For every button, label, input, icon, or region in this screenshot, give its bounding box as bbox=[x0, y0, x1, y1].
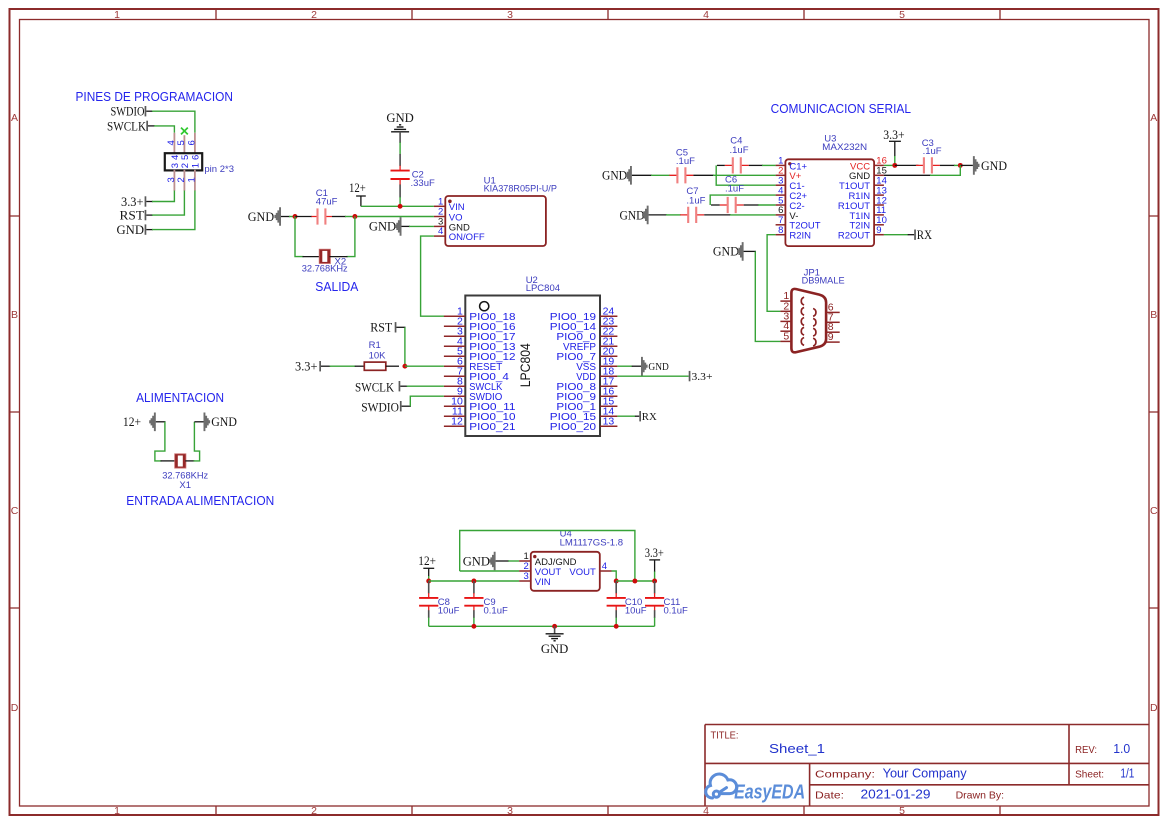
svg-text:D: D bbox=[11, 702, 19, 714]
svg-text:GND: GND bbox=[620, 207, 645, 222]
U2 pin 1 PIO0_18 bbox=[444, 305, 516, 323]
U2 pin 19 VSS bbox=[576, 355, 617, 373]
svg-text:GND: GND bbox=[463, 553, 490, 568]
U1 pin1 dot bbox=[448, 200, 452, 204]
junction feedback/rail bbox=[632, 579, 637, 584]
junction C9 top bbox=[471, 579, 476, 584]
wire X1 right to GND bbox=[185, 422, 204, 461]
junction 12+/C8/rail bbox=[426, 579, 431, 584]
svg-text:1: 1 bbox=[187, 177, 198, 182]
capacitor C4 bbox=[725, 136, 749, 174]
JP1 pin 8 bbox=[813, 321, 840, 336]
node RX (U3 R2OUT) bbox=[884, 227, 933, 242]
JP1 pin 1 bbox=[780, 290, 804, 305]
wire 3.3+ to pin3 column bbox=[146, 191, 174, 202]
capacitor C7 bbox=[680, 186, 705, 223]
wire C5 to U3 V+ bbox=[693, 174, 714, 176]
svg-text:9: 9 bbox=[828, 331, 834, 343]
border column ticks bottom bbox=[216, 806, 1000, 815]
svg-text:DB9MALE: DB9MALE bbox=[802, 276, 845, 287]
capacitor C11 bbox=[645, 581, 688, 626]
U3 pin 7 T2OUT bbox=[776, 215, 821, 232]
svg-text:GND: GND bbox=[648, 361, 668, 373]
wire U3 GND pin15 to junction bbox=[884, 165, 960, 175]
U3 pin 9 R2OUT bbox=[838, 225, 884, 242]
flag GND (power input) bbox=[204, 413, 237, 432]
node SWDIO (U2) bbox=[361, 400, 401, 415]
node SWCLK (U2) bbox=[355, 379, 400, 394]
svg-text:13: 13 bbox=[603, 415, 615, 427]
svg-text:.1uF: .1uF bbox=[730, 145, 749, 156]
U2 pin 24 PIO0_19 bbox=[550, 305, 618, 323]
svg-text:1: 1 bbox=[114, 9, 120, 21]
U4 pin1 dot bbox=[533, 555, 536, 558]
wire SWCLK to U2 pin8 bbox=[400, 385, 444, 387]
svg-text:.1uF: .1uF bbox=[923, 146, 942, 157]
svg-text:GND: GND bbox=[713, 244, 739, 259]
U1 pin 3 GND bbox=[434, 217, 470, 234]
flag GND (JP1 pin5) bbox=[713, 242, 744, 261]
U3 pin 2 V+ bbox=[776, 166, 802, 183]
junction C3/GND pin bbox=[958, 163, 963, 168]
wire R1 to RESET junction bbox=[386, 365, 399, 367]
svg-text:RX: RX bbox=[642, 411, 657, 423]
U2 pin 11 PIO0_10 bbox=[444, 405, 516, 423]
connector P1 pin stubs bottom (pins 3,2,1) bbox=[174, 170, 195, 191]
U3 pin 11 T1IN bbox=[850, 205, 887, 222]
wire C3 to GND flag bbox=[940, 164, 955, 166]
wire GND to pin1 column bbox=[146, 191, 195, 230]
svg-text:5: 5 bbox=[176, 140, 187, 145]
svg-text:12+: 12+ bbox=[123, 414, 141, 429]
U3 pin 12 R1OUT bbox=[838, 195, 887, 212]
svg-text:4: 4 bbox=[703, 9, 709, 21]
svg-text:0.1uF: 0.1uF bbox=[484, 605, 508, 616]
U2 pin 20 PIO0_7 bbox=[556, 345, 617, 363]
svg-text:ON/OFF: ON/OFF bbox=[449, 232, 485, 243]
svg-text:Sheet:: Sheet: bbox=[1075, 768, 1104, 780]
wire GND flag to C1 left node bbox=[281, 216, 290, 218]
svg-text:3.3+: 3.3+ bbox=[295, 359, 318, 374]
svg-text:.1uF: .1uF bbox=[725, 183, 744, 194]
svg-text:GND: GND bbox=[117, 222, 145, 237]
node RST (U2) bbox=[370, 320, 396, 335]
U3 pin 14 T1OUT bbox=[839, 176, 887, 193]
svg-text:1: 1 bbox=[114, 805, 120, 817]
border row ticks left bbox=[10, 216, 20, 608]
svg-text:R2OUT: R2OUT bbox=[838, 231, 870, 242]
svg-text:COMUNICACION SERIAL: COMUNICACION SERIAL bbox=[771, 101, 911, 116]
wire C1 left bbox=[295, 216, 312, 218]
wire VIN rail bbox=[429, 580, 519, 582]
svg-text:GND: GND bbox=[248, 209, 274, 224]
U2 pin1 indicator circle bbox=[480, 302, 489, 311]
svg-text:RST: RST bbox=[120, 207, 145, 222]
crystal X1 bbox=[162, 454, 208, 491]
junction pin4/C10/rail bbox=[614, 579, 619, 584]
svg-text:PIO0_20: PIO0_20 bbox=[550, 421, 596, 433]
wire U3 R2IN down to JP1 pin2 bbox=[767, 235, 780, 312]
node 12+ (U4 input) bbox=[418, 553, 436, 568]
ground GND (top of C2) bbox=[386, 110, 414, 132]
JP1 pin 4 bbox=[780, 320, 804, 335]
U2 pin 10 PIO0_11 bbox=[444, 395, 516, 413]
svg-text:R2IN: R2IN bbox=[789, 231, 811, 242]
svg-text:1/1: 1/1 bbox=[1120, 766, 1134, 780]
U3 pin 8 R2IN bbox=[776, 225, 812, 242]
svg-text:ALIMENTACION: ALIMENTACION bbox=[136, 390, 224, 405]
JP1 pin 3 bbox=[780, 310, 804, 325]
svg-text:.1uF: .1uF bbox=[676, 156, 695, 167]
junction RST/R1/RESET bbox=[402, 364, 407, 369]
U2 pin 15 PIO0_1 bbox=[556, 395, 617, 413]
wire U1 VO to C1 right node bbox=[355, 216, 434, 218]
svg-text:4: 4 bbox=[703, 805, 709, 817]
svg-text:.1uF: .1uF bbox=[686, 196, 705, 207]
U2 pin 12 PIO0_21 bbox=[444, 415, 516, 433]
svg-text:12+: 12+ bbox=[349, 180, 366, 195]
wire C1 left node down to X2 bbox=[295, 217, 304, 257]
wire SWDIO up to U2 pin9 bbox=[402, 396, 444, 406]
JP1 pin 7 bbox=[813, 311, 840, 326]
svg-text:SWDIO: SWDIO bbox=[361, 400, 399, 415]
node SWDIO (programming header) bbox=[111, 104, 147, 119]
wire SWCLK to pin4 column bbox=[148, 126, 174, 133]
svg-text:10K: 10K bbox=[369, 350, 387, 361]
border row ticks right bbox=[1149, 216, 1159, 608]
capacitor C3 bbox=[916, 138, 942, 174]
junction C9 bottom bbox=[471, 624, 476, 629]
U2 pin 8 SWCLK bbox=[444, 375, 502, 393]
svg-text:12+: 12+ bbox=[418, 553, 436, 568]
svg-text:1: 1 bbox=[191, 163, 202, 168]
svg-text:REV:: REV: bbox=[1075, 744, 1097, 756]
JP1 pin 5 bbox=[780, 330, 804, 345]
U3 pin 15 GND bbox=[849, 166, 887, 183]
wire GND down to JP1 pin5 bbox=[744, 251, 781, 341]
connector P1 pin stubs top (pins 4,5,6) bbox=[174, 133, 195, 153]
U2 pin 18 VDD bbox=[576, 365, 617, 383]
svg-text:3: 3 bbox=[507, 9, 513, 21]
svg-text:2: 2 bbox=[180, 163, 191, 168]
svg-text:5: 5 bbox=[899, 9, 905, 21]
U3 pin 10 T2IN bbox=[850, 215, 887, 232]
node RX (U2 PIO0_15) bbox=[617, 411, 656, 423]
svg-text:RST: RST bbox=[370, 320, 392, 335]
flag GND (U4 ADJ) bbox=[463, 552, 496, 571]
wire 12+ to U1 VIN bbox=[360, 196, 362, 206]
svg-text:Drawn By:: Drawn By: bbox=[956, 790, 1005, 802]
flag GND (right of C3) bbox=[973, 156, 1007, 175]
svg-text:PINES DE PROGRAMACION: PINES DE PROGRAMACION bbox=[76, 89, 233, 104]
connector JP1 DB9MALE body bbox=[791, 289, 826, 352]
svg-text:GND: GND bbox=[386, 110, 414, 125]
U2 pin 9 SWDIO bbox=[444, 385, 502, 403]
svg-text:SWCLK: SWCLK bbox=[107, 118, 147, 133]
svg-text:VOUT: VOUT bbox=[569, 567, 596, 578]
svg-text:2: 2 bbox=[311, 805, 317, 817]
svg-text:.33uF: .33uF bbox=[411, 178, 435, 189]
wire GND to C7 bbox=[649, 214, 667, 216]
U3 pin 6 V- bbox=[776, 205, 799, 222]
svg-text:4: 4 bbox=[438, 226, 443, 237]
svg-text:3.3+: 3.3+ bbox=[645, 545, 664, 560]
node SWCLK (programming header) bbox=[107, 118, 148, 133]
capacitor C10 bbox=[607, 581, 647, 626]
capacitor C8 bbox=[419, 581, 460, 626]
JP1 pin 2 bbox=[780, 300, 804, 315]
U2 pin 2 PIO0_16 bbox=[444, 315, 516, 333]
wire C4 left down to U3 C1- bbox=[716, 165, 775, 185]
wire bottom GND rail bbox=[429, 625, 655, 627]
wire junction to GND flag bbox=[960, 164, 973, 166]
wire 3.3+ down to VCC net bbox=[894, 141, 896, 165]
U2 pin 16 PIO0_9 bbox=[556, 385, 617, 403]
wire GND flag to U1 GND bbox=[402, 225, 411, 227]
svg-text:B: B bbox=[11, 309, 18, 321]
capacitor C6 bbox=[720, 174, 745, 213]
wire RST to pin2 column bbox=[146, 191, 184, 216]
svg-text:Company:: Company: bbox=[815, 768, 875, 780]
svg-text:ENTRADA ALIMENTACION: ENTRADA ALIMENTACION bbox=[126, 493, 274, 508]
wire GND flag to U4 pin1 bbox=[496, 560, 519, 562]
svg-text:5: 5 bbox=[180, 155, 191, 160]
connector P1 body bbox=[165, 153, 202, 170]
U2 pin 6 RESET bbox=[444, 355, 503, 373]
U4 pin 2 VOUT bbox=[519, 561, 561, 578]
IC U3 MAX232N body bbox=[785, 159, 874, 246]
svg-text:4: 4 bbox=[602, 561, 607, 572]
svg-text:6: 6 bbox=[187, 140, 198, 145]
U3 pin 4 C2+ bbox=[776, 185, 808, 202]
U2 pin 13 PIO0_20 bbox=[550, 415, 618, 433]
svg-text:A: A bbox=[1150, 112, 1157, 124]
IC U2 LPC804 body bbox=[465, 296, 600, 437]
wire junction to U2 RESET bbox=[405, 365, 444, 367]
wire SWDIO to pin6 column bbox=[146, 111, 195, 133]
U3 pin 13 R1IN bbox=[848, 185, 886, 202]
wire C1 right bbox=[332, 216, 346, 218]
wire 12+ down to VIN rail bbox=[428, 568, 430, 581]
U2 pin 17 PIO0_8 bbox=[556, 375, 617, 393]
svg-text:12: 12 bbox=[451, 415, 463, 427]
svg-text:LM1117GS-1.8: LM1117GS-1.8 bbox=[560, 538, 624, 549]
no-connect X on pin5 bbox=[181, 128, 188, 135]
svg-text:C: C bbox=[1150, 505, 1158, 517]
capacitor C9 bbox=[464, 581, 508, 626]
node 3.3+ (U4 output) bbox=[645, 545, 664, 560]
svg-text:GND: GND bbox=[602, 168, 627, 183]
svg-text:3: 3 bbox=[524, 571, 529, 582]
node 12+ (U1 input) bbox=[349, 180, 366, 196]
U1 pin 4 ON/OFF bbox=[434, 226, 485, 243]
svg-text:X1: X1 bbox=[179, 480, 191, 491]
U2 pin 22 PIO0_0 bbox=[556, 325, 617, 343]
U4 pin 1 ADJ/GND bbox=[519, 551, 577, 568]
wire GND to C5 bbox=[632, 174, 652, 176]
svg-text:GND: GND bbox=[981, 158, 1007, 173]
junction 3.3+/C11/rail bbox=[652, 579, 657, 584]
U3 pin 16 VCC bbox=[850, 156, 887, 173]
flag GND (U1 pin3) bbox=[369, 217, 402, 236]
crystal X2 bbox=[302, 249, 348, 274]
svg-text:6: 6 bbox=[191, 155, 202, 160]
wire C4 right to U3 C1+ bbox=[749, 164, 763, 166]
U1 pin 1 VIN bbox=[434, 196, 465, 213]
svg-text:Date:: Date: bbox=[815, 790, 844, 802]
svg-text:SWCLK: SWCLK bbox=[355, 379, 395, 394]
U3 pin 1 C1+ bbox=[776, 156, 808, 173]
svg-text:32.768KHz: 32.768KHz bbox=[302, 264, 348, 275]
svg-text:RX: RX bbox=[917, 227, 933, 242]
junction C10 bottom bbox=[614, 624, 619, 629]
svg-text:2021-01-29: 2021-01-29 bbox=[861, 788, 931, 802]
svg-text:Sheet_1: Sheet_1 bbox=[769, 742, 825, 756]
svg-text:47uF: 47uF bbox=[316, 197, 338, 208]
JP1 pin 9 bbox=[813, 331, 840, 346]
svg-text:9: 9 bbox=[876, 225, 881, 236]
svg-text:MAX232N: MAX232N bbox=[822, 142, 867, 153]
junction C2/VIN bbox=[398, 204, 403, 209]
svg-text:3.3+: 3.3+ bbox=[883, 127, 904, 142]
U1 pin 2 VO bbox=[434, 207, 463, 224]
flag GND (left of C1) bbox=[248, 207, 281, 226]
U2 pin 21 VREFP bbox=[563, 335, 617, 353]
node GND (programming header) bbox=[117, 222, 147, 237]
U2 pin 14 PIO0_15 bbox=[550, 405, 618, 423]
svg-text:SALIDA: SALIDA bbox=[315, 279, 359, 294]
svg-text:VIN: VIN bbox=[535, 577, 551, 588]
wire junction to C3 bbox=[895, 164, 919, 166]
wire U1 ON/OFF down to U2 pin1 bbox=[421, 236, 445, 316]
JP1 pin 6 bbox=[813, 301, 840, 316]
regulator U4 body bbox=[531, 552, 600, 591]
EasyEDA logo cloud bbox=[706, 774, 737, 798]
capacitor C2 bbox=[391, 170, 435, 190]
svg-text:KIA378R05PI-U/P: KIA378R05PI-U/P bbox=[484, 184, 557, 195]
junction GND bottom bbox=[552, 624, 557, 629]
wire RST down to RESET net bbox=[396, 327, 405, 366]
resistor R1 10K bbox=[364, 340, 386, 370]
node 3.3+ (programming header) bbox=[121, 194, 146, 209]
wire feedback to U4 pin2 bbox=[460, 570, 519, 572]
svg-text:D: D bbox=[1150, 702, 1158, 714]
flag GND (C7) bbox=[620, 206, 649, 225]
wire 3.3+ down to rail bbox=[654, 560, 656, 581]
wire 3.3+ to R1 bbox=[321, 365, 364, 367]
svg-text:Your Company: Your Company bbox=[883, 766, 968, 780]
svg-text:8: 8 bbox=[778, 225, 783, 236]
title block bbox=[705, 725, 1149, 807]
capacitor C1 bbox=[311, 188, 337, 224]
U3 pin 3 C1- bbox=[776, 176, 805, 193]
U3 pin1 dot bbox=[788, 162, 791, 165]
wire C1 right node down to X2 bbox=[347, 217, 355, 257]
wire C2 to VIN net bbox=[399, 179, 401, 185]
node 3.3+ (R1 input) bbox=[295, 359, 321, 374]
svg-text:2: 2 bbox=[176, 177, 187, 182]
border column ticks top bbox=[216, 9, 1000, 20]
U2 pin 23 PIO0_14 bbox=[550, 315, 618, 333]
node 3.3+ (U2 VDD) bbox=[617, 371, 712, 383]
wire C6 right to U3 C2- bbox=[744, 204, 776, 206]
wire C7 to U3 V- bbox=[704, 214, 731, 216]
U4 pin 4 VOUT bbox=[569, 561, 611, 578]
U3 pin 5 C2- bbox=[776, 195, 805, 212]
svg-text:10uF: 10uF bbox=[625, 605, 647, 616]
U2 pin 5 PIO0_12 bbox=[444, 345, 516, 363]
svg-text:C: C bbox=[11, 505, 19, 517]
svg-text:B: B bbox=[1150, 309, 1157, 321]
U2 pin 7 PIO0_4 bbox=[444, 365, 509, 383]
ground GND (U4 bottom) bbox=[541, 626, 569, 656]
junction C1 right bbox=[352, 214, 357, 219]
svg-text:2: 2 bbox=[311, 9, 317, 21]
svg-text:LPC804: LPC804 bbox=[526, 283, 560, 294]
wire X2 left lead bbox=[303, 256, 321, 258]
flag GND (C5) bbox=[602, 166, 632, 185]
svg-text:pin 2*3: pin 2*3 bbox=[204, 164, 234, 175]
svg-text:SWDIO: SWDIO bbox=[111, 104, 145, 119]
svg-text:1.0: 1.0 bbox=[1113, 742, 1130, 756]
node 12+ (power input) bbox=[123, 413, 156, 432]
svg-text:3.3+: 3.3+ bbox=[692, 371, 713, 383]
regulator U1 body bbox=[445, 196, 546, 246]
wire C6 left up to U3 C2+ bbox=[710, 195, 775, 205]
svg-text:GND: GND bbox=[541, 641, 569, 656]
svg-text:LPC804: LPC804 bbox=[518, 343, 533, 388]
junction VCC/3.3+ bbox=[892, 163, 897, 168]
svg-text:TITLE:: TITLE: bbox=[711, 729, 739, 741]
U2 pin 4 PIO0_13 bbox=[444, 335, 516, 353]
svg-text:PIO0_21: PIO0_21 bbox=[469, 421, 515, 433]
wire U4 VOUT feedback loop bbox=[460, 531, 635, 582]
svg-text:0.1uF: 0.1uF bbox=[664, 605, 688, 616]
wire GND to C2 bbox=[399, 132, 401, 143]
node 3.3+ (U3 VCC) bbox=[883, 127, 904, 142]
wire VIN rail right bbox=[616, 580, 654, 582]
wire U3 VCC to junction bbox=[884, 164, 896, 166]
junction C1 left bbox=[293, 214, 298, 219]
svg-text:GND: GND bbox=[369, 219, 396, 234]
svg-text:5: 5 bbox=[783, 330, 789, 342]
U4 pin 3 VIN bbox=[519, 571, 551, 588]
svg-text:5: 5 bbox=[899, 805, 905, 817]
node RST (programming header) bbox=[120, 207, 147, 222]
wire U4 pin4 down to rail bbox=[612, 571, 617, 581]
U2 pin 3 PIO0_17 bbox=[444, 325, 516, 343]
svg-text:GND: GND bbox=[211, 414, 237, 429]
svg-text:EasyEDA: EasyEDA bbox=[734, 782, 805, 804]
svg-text:3: 3 bbox=[507, 805, 513, 817]
svg-text:10uF: 10uF bbox=[438, 605, 460, 616]
wire 12+ to X1 left bbox=[155, 422, 175, 461]
svg-text:A: A bbox=[11, 112, 18, 124]
flag GND (U2 VSS) bbox=[617, 357, 668, 376]
capacitor C5 bbox=[669, 147, 695, 183]
wire X2 right lead bbox=[330, 256, 348, 258]
